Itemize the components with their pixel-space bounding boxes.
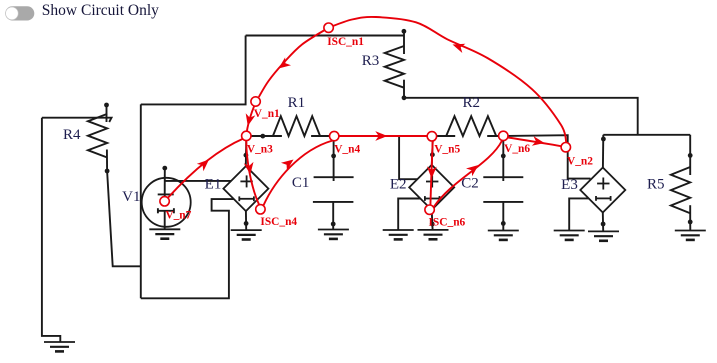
ground: below V1: [149, 229, 180, 238]
svg-text:R2: R2: [462, 95, 480, 111]
svg-text:R4: R4: [63, 127, 81, 143]
wire: R3 bottom rail right and down to E3/R5 rail: [404, 98, 638, 135]
wire: R4 bottom slanted down to V1 left loop: [107, 171, 141, 266]
wire: left outer vertical from R4 top wire down to bottom-left ground: [42, 118, 60, 342]
wire: SFG edge V_n7 to V_n3: [168, 138, 244, 198]
svg-text:R1: R1: [288, 95, 306, 111]
svg-text:C1: C1: [292, 175, 310, 191]
wire: V1 left loop vertical: [140, 104, 142, 298]
wire: E1 top lead from node V_n3: [244, 136, 249, 166]
arrowhead on edge V_n3->ISC_n4: [244, 162, 254, 175]
arrowhead on edge ISC_n4->V_n4: [281, 160, 294, 171]
svg-text:E2: E2: [390, 177, 407, 193]
junction dot right of V_n3: [260, 134, 265, 139]
node V_n6: [499, 131, 508, 140]
wire: main mid rail V_n3 to corner at right: [246, 135, 262, 137]
svg-text:V1: V1: [122, 189, 140, 205]
ground: below E3 bottom: [588, 231, 619, 240]
toggle switch control: [5, 6, 34, 20]
arrowhead on edge V_n4->V_n5: [375, 131, 387, 141]
wire: V1 plus to E1 upper-left control terminal: [165, 180, 231, 182]
arrowhead on edge V_n1->V_n3: [246, 113, 256, 126]
wire: top-left horizontal to R4 top: [42, 118, 112, 122]
node V_n4: [330, 131, 339, 140]
capacitor C2: [483, 136, 523, 231]
svg-text:ISC_n1: ISC_n1: [327, 36, 364, 48]
svg-text:V_n7: V_n7: [165, 209, 191, 221]
ground: below E2 bottom: [418, 230, 449, 239]
svg-text:R3: R3: [362, 53, 380, 69]
wire: SFG edge V_n4 to V_n5: [339, 135, 428, 137]
svg-text:V_n1: V_n1: [254, 108, 280, 120]
wire: E2 lower-left to ground: [398, 199, 420, 231]
node V_n1: [251, 97, 260, 106]
wire: E2 top lead from node V_n5: [430, 136, 435, 165]
node V_n7: [160, 197, 169, 206]
svg-text:ISC_n4: ISC_n4: [260, 216, 297, 228]
svg-text:E3: E3: [561, 177, 578, 193]
transistor: none / dependent source E2: [409, 165, 454, 210]
svg-text:ISC_n6: ISC_n6: [429, 216, 466, 228]
svg-text:V_n6: V_n6: [504, 143, 530, 155]
wire: E1 bottom to ground: [244, 211, 249, 230]
svg-text:V_n5: V_n5: [434, 143, 460, 155]
ground: below E2 left: [383, 230, 414, 239]
capacitor C1: [313, 136, 354, 230]
wire: top rail to R3: [246, 35, 404, 37]
svg-text:Show Circuit Only: Show Circuit Only: [42, 2, 159, 19]
wire: E3 top lead from rail: [601, 135, 606, 168]
arrowhead on edge V_n2->ISC_n1: [453, 44, 466, 53]
wire: SFG edge V_n1 to V_n3: [247, 106, 254, 131]
resistor R3: [385, 29, 407, 100]
arrowhead on edge V_n7->V_n3: [197, 160, 209, 172]
arrowhead on edge V_n5->ISC_n6: [427, 166, 437, 178]
wire: E3/R5 top rail: [603, 134, 690, 136]
wire: SFG edge V_n5 to ISC_n6: [430, 141, 432, 206]
svg-text:V_n3: V_n3: [247, 143, 273, 155]
arrowhead on edge ISC_n6->V_n6: [466, 165, 479, 176]
resistor R2: [446, 116, 496, 136]
wire: SFG edge ISC_n1 to V_n1: [259, 28, 329, 97]
wire: SFG edge ISC_n6 to V_n6: [434, 141, 502, 207]
node ISC_n1: [324, 23, 333, 32]
resistor R5: [671, 135, 693, 231]
wire: E3 bottom to ground: [601, 213, 606, 232]
ground: below C1: [318, 230, 349, 239]
arrowhead on edge V_n6->V_n2: [532, 136, 545, 146]
ground: bottom-left: [44, 342, 75, 351]
wire: V_n4 to V_n5 (under red): [334, 135, 433, 137]
ground: below E1: [231, 230, 262, 239]
wire: E3 lower-left to ground: [569, 198, 588, 230]
svg-text:V_n4: V_n4: [334, 143, 360, 155]
wire: SFG edge V_n2 to ISC_n1 (big arc): [329, 17, 567, 143]
resistor R4: [88, 103, 110, 174]
wire: bottom loop under V1/E1: [141, 199, 234, 298]
ground: below E3 left: [554, 231, 585, 240]
svg-text:V_n2: V_n2: [567, 155, 593, 167]
node V_n3: [242, 131, 251, 140]
voltage source V1: [142, 166, 191, 230]
svg-text:E1: E1: [205, 177, 222, 193]
wire: main rail V_n6 to right corner down to E3: [503, 135, 590, 178]
node V_n5: [427, 132, 436, 141]
resistor R1: [273, 116, 320, 136]
wire: SFG edge V_n6 to V_n2: [508, 138, 561, 147]
op-amp: none / dependent source E1: [223, 166, 268, 211]
wire: E2 upper-left control from main rail: [399, 136, 417, 179]
dependent source E3: [580, 168, 625, 213]
wire: SFG edge ISC_n4 to V_n4: [263, 141, 332, 206]
ground: below R5: [675, 231, 706, 240]
node V_n2: [561, 143, 570, 152]
node ISC_n6: [425, 205, 434, 214]
arrowhead on edge ISC_n1->V_n1: [279, 57, 292, 68]
svg-text:R5: R5: [647, 177, 665, 193]
node ISC_n4: [256, 205, 265, 214]
ground: below C2: [488, 231, 519, 240]
wire: SFG edge V_n3 to ISC_n4: [246, 141, 259, 205]
wire: top-left L from loop up and right to top rail: [141, 36, 246, 105]
wire: E2 bottom to ground: [430, 210, 435, 230]
